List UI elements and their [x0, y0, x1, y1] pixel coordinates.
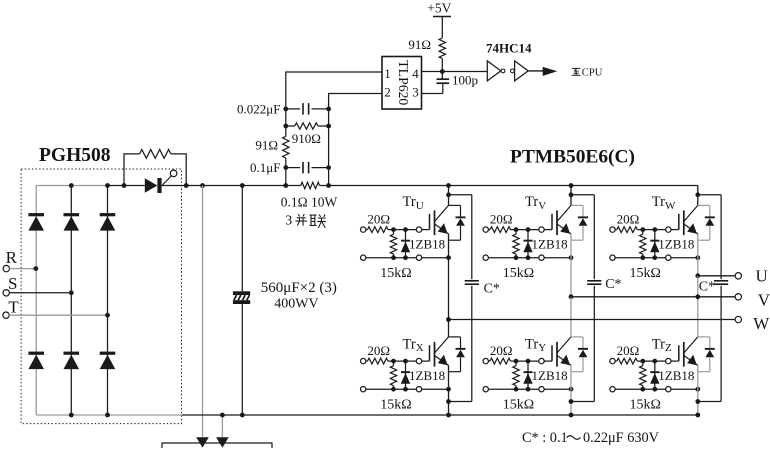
wire pin1 to divider network	[286, 72, 382, 109]
resistor R bypass (inrush)	[124, 154, 140, 186]
node shunt left	[283, 183, 288, 188]
wire gate B output	[528, 70, 543, 72]
node 560uF bottom	[240, 413, 245, 418]
terminal emitter-right (TrU)	[416, 255, 421, 260]
terminal W	[735, 316, 741, 322]
node return A (TrV)	[514, 255, 519, 260]
resistor 910Ω (horizontal)	[286, 125, 295, 127]
wire emitter TrU to phase line	[448, 240, 450, 319]
node snubber return (TrZ)	[695, 399, 700, 404]
wire emitter TrX to bottom rail	[448, 372, 450, 415]
node snubber return (TrY)	[569, 399, 574, 404]
capacitor C* snubber	[587, 280, 601, 282]
node gate B (TrZ)	[652, 359, 657, 364]
wire phase W	[449, 319, 736, 321]
node return B (TrZ)	[652, 387, 657, 392]
zener 1ZB18 (TrW)	[654, 230, 656, 258]
wire snubber vertical	[471, 195, 473, 279]
transistor TrX IGBT	[429, 345, 431, 361]
svg-text:S: S	[8, 274, 17, 293]
resistor 15kΩ (TrZ)	[640, 366, 646, 386]
node dots 0.022 row	[283, 107, 288, 112]
diode freewheel (TrV)	[571, 204, 583, 206]
diode freewheel (TrU)	[449, 204, 461, 206]
node gate A (TrV)	[514, 227, 519, 232]
terminal gate-in (TrZ)	[610, 358, 615, 363]
svg-text:20Ω: 20Ω	[490, 343, 513, 358]
svg-text:0.1Ω 10W: 0.1Ω 10W	[281, 195, 338, 210]
node col3 bottom	[105, 413, 110, 418]
node return B (TrU)	[403, 255, 408, 260]
wire +5V to resistor	[441, 17, 443, 39]
resistor 15kΩ (TrW)	[640, 234, 646, 254]
wire bridge left column (gray)	[35, 186, 37, 416]
svg-text:W: W	[753, 314, 770, 333]
wire emitter-return row (TrX)	[363, 388, 448, 390]
diode freewheel (TrZ)	[698, 336, 710, 338]
node at TLP620 pin4	[440, 69, 445, 74]
terminal emitter-left (TrZ)	[610, 387, 615, 392]
zener 1ZB18 (TrX)	[405, 361, 407, 389]
diode D1 (inrush bypass, pointing right)	[145, 178, 158, 193]
terminal gate-in (TrY)	[483, 358, 488, 363]
svg-text:C*: C*	[605, 277, 621, 292]
module PGH508 dotted outline	[21, 169, 181, 424]
node return-emitter join (TrV)	[569, 255, 574, 260]
node bottom rail (TrZ)	[695, 413, 700, 418]
node phase join (TrW)	[695, 273, 700, 278]
wire S input	[9, 292, 71, 294]
svg-text:15kΩ: 15kΩ	[503, 397, 534, 412]
arrow down A	[196, 437, 209, 447]
svg-text:74HC14: 74HC14	[486, 40, 532, 55]
wire snubber branch	[449, 194, 472, 196]
svg-text:PGH508: PGH508	[39, 145, 111, 166]
node phase join (TrV)	[569, 294, 574, 299]
svg-text:20Ω: 20Ω	[367, 211, 390, 226]
wire pin2 to divider network	[329, 94, 382, 109]
wire emitter-return row (TrU)	[363, 257, 448, 259]
wire snubber vertical	[593, 195, 595, 279]
node dots 910 row	[283, 124, 288, 129]
+5V rail bar	[433, 16, 451, 18]
svg-text:1: 1	[384, 66, 391, 81]
terminal gate-in (TrX)	[361, 358, 366, 363]
resistor 15kΩ (TrV)	[513, 234, 519, 254]
wire bridge column 2	[70, 186, 72, 416]
resistor 20Ω (TrU)	[366, 229, 368, 231]
terminal emitter-right (TrX)	[416, 387, 421, 392]
terminal gate circle (TrU)	[416, 227, 421, 232]
svg-text:100p: 100p	[452, 72, 478, 87]
wire cap 560uF vertical	[241, 186, 243, 292]
svg-text:V: V	[758, 290, 770, 309]
wire top rail to relay diode	[108, 185, 145, 187]
wire left divider vertical (upper)	[285, 109, 287, 136]
node gate A (TrU)	[391, 227, 396, 232]
wire collector TrW from rail	[697, 186, 699, 206]
node col2 top	[69, 183, 74, 188]
diode bridge bottom 2	[64, 352, 80, 355]
resistor 20Ω (TrX)	[366, 360, 368, 362]
wire emitter-return row (TrW)	[613, 257, 698, 259]
svg-text:C* : 0.1: C* : 0.1	[522, 430, 568, 446]
terminal emitter-right (TrW)	[666, 255, 671, 260]
node rail tap TrV	[569, 183, 574, 188]
terminal V	[735, 294, 741, 300]
svg-text:1ZB18: 1ZB18	[409, 237, 445, 252]
node return A (TrW)	[640, 255, 645, 260]
node return A (TrU)	[391, 255, 396, 260]
wire T input (gray)	[9, 314, 107, 316]
node snubber tap (TrU)	[446, 192, 451, 197]
wire charge line A (gray)	[202, 186, 204, 438]
node gate B (TrV)	[526, 227, 531, 232]
svg-text:15kΩ: 15kΩ	[380, 397, 411, 412]
node R	[33, 266, 38, 271]
wire emitter TrV to phase line	[570, 240, 572, 297]
wire resistor to node	[441, 59, 443, 72]
terminal emitter-left (TrU)	[361, 255, 366, 260]
svg-text:R: R	[6, 248, 18, 267]
node gate B (TrW)	[652, 227, 657, 232]
wire right divider vertical	[328, 109, 330, 186]
wire rail after diode	[162, 185, 286, 187]
wire emitter-return row (TrZ)	[613, 388, 698, 390]
op-amp U1 TLP620 optocoupler box	[382, 57, 422, 110]
node gate A (TrY)	[514, 359, 519, 364]
node bottom rail (TrX)	[446, 413, 451, 418]
transistor TrW IGBT	[678, 214, 680, 230]
terminal gate-in (TrV)	[483, 227, 488, 232]
transistor TrY IGBT	[551, 345, 553, 361]
svg-text:91Ω: 91Ω	[408, 37, 431, 52]
resistor 15kΩ (TrU)	[390, 234, 396, 254]
node return A (TrY)	[514, 387, 519, 392]
node return-emitter join (TrU)	[446, 255, 451, 260]
node charge line tap	[200, 183, 205, 188]
diode bridge bottom 3	[100, 352, 116, 355]
wire gate to IGBT (TrY)	[544, 360, 552, 362]
svg-text:1ZB18: 1ZB18	[409, 368, 445, 383]
terminal gate-in (TrU)	[361, 227, 366, 232]
node return B (TrX)	[403, 387, 408, 392]
svg-text:15kΩ: 15kΩ	[503, 266, 534, 281]
diode bridge top 3	[100, 213, 116, 216]
wire pin4 to node	[422, 71, 443, 73]
svg-text:20Ω: 20Ω	[490, 211, 513, 226]
svg-text:20Ω: 20Ω	[367, 343, 390, 358]
wire gate to IGBT (TrW)	[671, 229, 679, 231]
wire emitter (TrY)	[570, 365, 572, 371]
resistor 15kΩ (TrY)	[513, 366, 519, 386]
wire snubber return	[698, 401, 721, 403]
capacitor C 560μF×2 electrolytic	[233, 291, 250, 295]
wire emitter (TrZ)	[697, 365, 699, 371]
resistor 15kΩ (TrX)	[390, 366, 396, 386]
terminal emitter-right (TrZ)	[666, 387, 671, 392]
resistor 91Ω (vertical, divider)	[283, 136, 289, 158]
transistor TrU IGBT	[429, 214, 431, 230]
wire emitter TrW to phase line	[697, 240, 699, 276]
wire snubber branch	[571, 194, 594, 196]
resistor 20Ω (TrZ)	[615, 360, 617, 362]
terminal emitter-right (TrV)	[539, 255, 544, 260]
svg-text:+5V: +5V	[427, 0, 451, 15]
node snubber tap (TrW)	[695, 192, 700, 197]
inverter gate A (74HC14)	[487, 61, 501, 81]
terminal gate circle (TrV)	[539, 227, 544, 232]
svg-text:2: 2	[384, 85, 391, 100]
wire emitter (TrU)	[448, 234, 450, 240]
node snubber tap (TrV)	[569, 192, 574, 197]
node gate A (TrW)	[640, 227, 645, 232]
wire emitter (TrX)	[448, 365, 450, 371]
svg-text:15kΩ: 15kΩ	[629, 397, 660, 412]
wire bottom rail (gray, inside bridge)	[36, 414, 182, 416]
wire bridge column 3	[107, 186, 109, 416]
svg-text:560μF×2 (3): 560μF×2 (3)	[261, 280, 337, 296]
node T	[105, 313, 110, 318]
node return-emitter join (TrZ)	[695, 387, 700, 392]
wire emitter (TrV)	[570, 234, 572, 240]
wire collector TrV from rail	[570, 186, 572, 206]
svg-text:TLP620: TLP620	[396, 60, 411, 105]
capacitor C* snubber	[465, 280, 479, 282]
wire snubber vertical	[720, 195, 722, 279]
terminal emitter-left (TrV)	[483, 255, 488, 260]
node S	[69, 290, 74, 295]
wire phase V	[571, 296, 735, 298]
node bypass right	[184, 183, 189, 188]
svg-text:3: 3	[412, 85, 419, 100]
bottom unit box	[162, 443, 272, 448]
terminal emitter-right (TrY)	[539, 387, 544, 392]
terminal emitter-left (TrY)	[483, 387, 488, 392]
terminal gate-in (TrW)	[610, 227, 615, 232]
node dots 0.1 row	[283, 165, 288, 170]
inverter gate B (74HC14)	[511, 69, 515, 73]
wire collector TrY from phase line	[570, 297, 572, 337]
node bypass left	[122, 183, 127, 188]
diode freewheel (TrW)	[698, 204, 710, 206]
terminal gate circle (TrW)	[666, 227, 671, 232]
label to-CPU	[572, 67, 581, 69]
wire charge line B (gray)	[221, 415, 223, 437]
node return B (TrY)	[526, 387, 531, 392]
node gate B (TrX)	[403, 359, 408, 364]
wire rail shunt to inverter	[329, 185, 698, 187]
node gate A (TrZ)	[640, 359, 645, 364]
wire left divider vertical (lower)	[285, 158, 287, 185]
resistor 20Ω (TrW)	[615, 229, 617, 231]
node return-emitter join (TrX)	[446, 387, 451, 392]
node gate A (TrX)	[391, 359, 396, 364]
relay contact switch	[162, 176, 171, 185]
node col3 top	[105, 183, 110, 188]
terminal gate circle (TrY)	[539, 358, 544, 363]
svg-text:400WV: 400WV	[274, 297, 318, 312]
node return A (TrX)	[391, 387, 396, 392]
svg-text:0.022μF: 0.022μF	[237, 101, 280, 116]
diode freewheel (TrX)	[449, 336, 461, 338]
svg-text:910Ω: 910Ω	[292, 131, 321, 146]
capacitor C* snubber	[714, 280, 728, 282]
wire R input (gray)	[10, 268, 36, 270]
wire emitter TrY to bottom rail	[570, 372, 572, 415]
node smoothing cap tap	[240, 183, 245, 188]
wire top rail (gray, inside bridge)	[36, 185, 107, 187]
svg-text:0.22μF 630V: 0.22μF 630V	[583, 430, 660, 446]
node line B on bottom rail	[220, 413, 225, 418]
terminal gate circle (TrZ)	[666, 358, 671, 363]
node return B (TrV)	[526, 255, 531, 260]
wire bottom rail (main)	[182, 414, 698, 416]
svg-text:T: T	[8, 297, 19, 316]
wire gate to IGBT (TrZ)	[671, 360, 679, 362]
svg-text:1ZB18: 1ZB18	[532, 237, 568, 252]
wire gate to IGBT (TrX)	[422, 360, 430, 362]
node return A (TrZ)	[640, 387, 645, 392]
terminal emitter-left (TrX)	[361, 387, 366, 392]
transistor TrZ IGBT	[678, 345, 680, 361]
zener 1ZB18 (TrU)	[405, 230, 407, 258]
svg-text:U: U	[756, 266, 768, 285]
resistor 91Ω (pull-up)	[439, 38, 445, 59]
diode bridge bottom 1	[28, 352, 44, 355]
node rail tap TrU	[446, 183, 451, 188]
wire collector TrZ from phase line	[697, 276, 699, 337]
svg-text:C*: C*	[699, 280, 715, 295]
wire emitter TrZ to bottom rail	[697, 372, 699, 415]
svg-text:20Ω: 20Ω	[617, 211, 640, 226]
svg-text:CPU: CPU	[582, 68, 603, 79]
wire gate to IGBT (TrU)	[422, 229, 430, 231]
wire collector TrX from phase line	[448, 320, 450, 337]
wire phase U	[698, 275, 735, 277]
zener 1ZB18 (TrZ)	[654, 361, 656, 389]
svg-text:15kΩ: 15kΩ	[380, 266, 411, 281]
wire snubber branch	[698, 194, 721, 196]
svg-text:3: 3	[285, 213, 292, 228]
wire snubber return	[449, 401, 472, 403]
terminal U	[735, 273, 741, 279]
diode freewheel (TrY)	[571, 336, 583, 338]
node return B (TrW)	[652, 255, 657, 260]
wire emitter-return row (TrY)	[486, 388, 571, 390]
capacitor 0.022μF	[286, 108, 300, 110]
svg-text:4: 4	[412, 66, 419, 81]
svg-text:1ZB18: 1ZB18	[658, 237, 694, 252]
svg-text:C*: C*	[484, 281, 500, 296]
resistor 20Ω (TrV)	[488, 229, 490, 231]
node V line crossing	[695, 294, 700, 299]
svg-text:1ZB18: 1ZB18	[532, 368, 568, 383]
node snubber return (TrX)	[446, 399, 451, 404]
diode bridge top 1	[28, 213, 44, 216]
svg-text:PTMB50E6(C): PTMB50E6(C)	[510, 147, 635, 168]
wire node to inverter input	[442, 71, 487, 73]
node return-emitter join (TrW)	[695, 255, 700, 260]
transistor TrV IGBT	[551, 214, 553, 230]
zener 1ZB18 (TrY)	[527, 361, 529, 389]
svg-text:15kΩ: 15kΩ	[629, 266, 660, 281]
svg-text:0.1μF: 0.1μF	[250, 160, 280, 175]
terminal gate circle (TrX)	[416, 358, 421, 363]
capacitor 0.1μF	[286, 167, 300, 169]
node phase join (TrU)	[446, 317, 451, 322]
arrow down B	[216, 437, 229, 447]
svg-text:1ZB18: 1ZB18	[658, 368, 694, 383]
node bottom rail (TrY)	[569, 413, 574, 418]
wire pin3 to 100p	[422, 93, 443, 95]
node return-emitter join (TrY)	[569, 387, 574, 392]
signal arrow to CPU	[543, 67, 558, 76]
svg-text:20Ω: 20Ω	[617, 343, 640, 358]
diode bridge top 2	[64, 213, 80, 216]
terminal emitter-left (TrW)	[610, 255, 615, 260]
node gate B (TrU)	[403, 227, 408, 232]
zener 1ZB18 (TrV)	[527, 230, 529, 258]
resistor R shunt 0.1Ω 10W (in rail)	[286, 185, 301, 187]
node gate B (TrY)	[526, 359, 531, 364]
node shunt right	[326, 183, 331, 188]
resistor 20Ω (TrY)	[488, 360, 490, 362]
wire collector TrU from rail	[448, 186, 450, 206]
wire snubber return	[571, 401, 594, 403]
wire emitter (TrW)	[697, 234, 699, 240]
svg-text:91Ω: 91Ω	[255, 137, 278, 152]
node col2 bottom	[69, 413, 74, 418]
wire gate to IGBT (TrV)	[544, 229, 552, 231]
wire emitter-return row (TrV)	[486, 257, 571, 259]
capacitor 100p	[441, 72, 443, 79]
